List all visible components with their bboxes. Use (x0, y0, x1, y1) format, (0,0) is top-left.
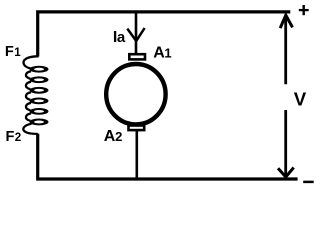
coil top hook (23, 56, 38, 68)
voltage arrow V (upper half, arrowhead up) (280, 15, 292, 84)
svg-text:F: F (6, 129, 15, 145)
coil loop 5 (30, 108, 49, 115)
coil loop 6 (30, 119, 49, 126)
svg-text:A: A (104, 128, 116, 145)
armature circle (motor) (106, 64, 165, 124)
coil bottom hook (23, 124, 37, 134)
coil loop 4 (30, 97, 49, 104)
coil left arc 5 (26, 113, 31, 120)
svg-text:1: 1 (14, 46, 21, 59)
wire: bottom rail from coil bottom to - terminal (38, 134, 298, 179)
wire: brush A2 down to bottom rail (136, 131, 139, 178)
svg-text:1: 1 (164, 45, 171, 60)
coil loop 2 (30, 76, 49, 83)
coil loop 1 (30, 66, 49, 73)
coil left arc 2 (26, 82, 31, 89)
svg-text:2: 2 (15, 131, 21, 144)
wire: armature feed, top rail down to brush A1 (135, 12, 138, 54)
svg-text:2: 2 (115, 129, 122, 144)
voltage arrow V (lower half, arrowhead down) (278, 110, 294, 177)
coil left arc 3 (26, 92, 31, 99)
brush A1 (129, 54, 145, 59)
brush A2 (129, 126, 145, 131)
Ia current arrowhead (127, 28, 144, 41)
coil left arc 1 (26, 71, 31, 78)
field winding F1-F2 coil (23, 56, 48, 134)
svg-text:F: F (5, 44, 14, 60)
plus terminal (299, 5, 309, 15)
svg-text:A: A (153, 44, 165, 61)
wire: top rail from left corner to + terminal (38, 12, 291, 57)
coil left arc 4 (26, 103, 31, 110)
coil loop 3 (30, 87, 49, 94)
minus terminal (303, 181, 314, 184)
svg-text:V: V (294, 89, 307, 110)
svg-text:a: a (117, 29, 126, 46)
